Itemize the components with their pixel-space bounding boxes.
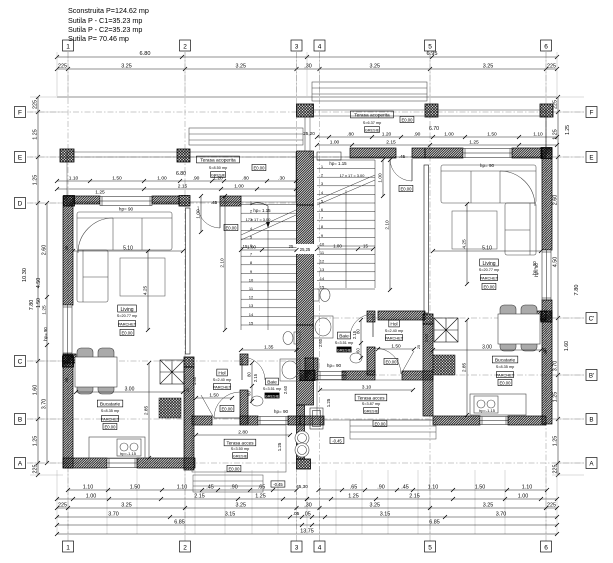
axis C' right line	[310, 317, 586, 319]
baie labels right	[338, 332, 351, 339]
bottom dim row2 right	[305, 493, 559, 501]
wall D-row west segment	[74, 196, 100, 204]
east terasa edge line	[545, 116, 547, 148]
svg-text:S=8.35 mp: S=8.35 mp	[496, 365, 514, 369]
svg-text:2.15: 2.15	[409, 493, 420, 499]
hall-kitchen thin wall upper right	[424, 165, 429, 313]
svg-text:3.15: 3.15	[380, 511, 391, 517]
svg-text:S=6.37 mp: S=6.37 mp	[363, 121, 381, 125]
svg-text:1.25: 1.25	[565, 125, 571, 135]
B'-row wall e right	[402, 371, 433, 380]
svg-text:15: 15	[363, 243, 368, 248]
svg-text:.65: .65	[350, 484, 358, 490]
svg-text:1.25: 1.25	[32, 129, 38, 140]
svg-text:6.85: 6.85	[429, 519, 440, 525]
axis 5 line	[429, 52, 431, 541]
axis A left box	[15, 458, 26, 469]
svg-text:60: 60	[355, 348, 360, 353]
svg-text:E0.00: E0.00	[375, 421, 387, 426]
svg-text:3: 3	[295, 44, 299, 51]
svg-text:4.50: 4.50	[36, 278, 42, 289]
B-row wall mid segment	[240, 416, 258, 425]
stair dim 1.00 right	[315, 243, 375, 251]
bottom dim row6	[55, 528, 559, 536]
svg-text:1.25: 1.25	[469, 140, 479, 146]
svg-text:6.85: 6.85	[174, 519, 185, 525]
svg-text:1.25: 1.25	[255, 493, 266, 499]
axis B left line	[27, 418, 300, 420]
tile block left	[159, 398, 181, 418]
svg-text:E0.00: E0.00	[500, 380, 512, 385]
svg-text:S=3.87 mp: S=3.87 mp	[362, 402, 380, 406]
south wall right segment e	[508, 416, 546, 425]
svg-text:S=3.51 mp: S=3.51 mp	[335, 341, 353, 345]
svg-text:1.25: 1.25	[32, 175, 38, 186]
svg-text:Terasa acoperita: Terasa acoperita	[354, 113, 390, 119]
coffee table right	[452, 211, 497, 249]
axis E left box	[15, 152, 26, 163]
svg-text:D: D	[18, 201, 23, 208]
wall hol-baie lower	[240, 390, 248, 425]
svg-text:6.95: 6.95	[427, 51, 438, 57]
terasa acces outline left	[192, 425, 286, 472]
svg-text:Bucatarie: Bucatarie	[100, 402, 121, 408]
svg-text:.45: .45	[399, 154, 406, 159]
svg-text:Living: Living	[482, 261, 495, 267]
coffee table left	[120, 258, 165, 296]
svg-text:225: 225	[547, 502, 556, 508]
svg-text:10: 10	[249, 277, 254, 282]
svg-text:.65: .65	[258, 484, 266, 490]
baie dim 80/60 right	[355, 318, 363, 360]
axis 2 bottom box	[180, 541, 191, 552]
svg-text:E0.00: E0.00	[105, 424, 117, 429]
axis D left line	[27, 202, 300, 204]
svg-text:1.25: 1.25	[552, 436, 558, 447]
svg-text:1.00: 1.00	[330, 139, 340, 145]
left dim chain inner	[41, 201, 49, 465]
svg-text:2.85: 2.85	[461, 363, 467, 373]
svg-text:1.25: 1.25	[42, 305, 48, 315]
svg-text:225: 225	[547, 63, 556, 69]
west wall lower	[63, 355, 73, 468]
central wall upper	[297, 151, 314, 205]
svg-text:1.00: 1.00	[195, 209, 201, 219]
svg-text:E: E	[18, 155, 23, 162]
svg-text:13: 13	[249, 303, 254, 308]
svg-text:25: 25	[186, 388, 190, 392]
svg-text:.45: .45	[211, 200, 218, 205]
svg-text:25,25: 25,25	[300, 247, 311, 252]
svg-text:Sutila P - C2=35.23 mp: Sutila P - C2=35.23 mp	[68, 25, 142, 34]
svg-text:GRESIE: GRESIE	[337, 348, 352, 352]
svg-text:.90: .90	[230, 484, 238, 490]
window hp=90 E-row right	[463, 149, 512, 158]
svg-text:Hol: Hol	[218, 371, 225, 377]
svg-text:35: 35	[64, 377, 69, 382]
B-row wall center stub	[300, 416, 324, 425]
wc left	[283, 332, 300, 345]
svg-text:Terasa acces: Terasa acces	[357, 396, 385, 401]
svg-text:17 x 17 = 3.00: 17 x 17 = 3.00	[246, 217, 272, 222]
svg-text:-0.45: -0.45	[332, 438, 342, 443]
central wall lower	[297, 325, 314, 405]
svg-text:3.70: 3.70	[41, 399, 47, 410]
svg-text:17 x 17 = 3.00: 17 x 17 = 3.00	[340, 173, 366, 178]
axis A left line	[27, 462, 300, 464]
svg-text:hp= 1.15: hp= 1.15	[253, 208, 271, 213]
bottom dim row5	[55, 519, 559, 527]
right extension lines	[552, 97, 584, 475]
axis C left box	[15, 356, 26, 367]
svg-text:Terasa acoperita: Terasa acoperita	[200, 158, 236, 164]
right interior dim row	[315, 131, 559, 139]
svg-text:2.60: 2.60	[283, 385, 288, 394]
living labels right	[480, 259, 499, 266]
south wall mid segment	[137, 458, 195, 468]
svg-text:2.80: 2.80	[238, 429, 248, 435]
svg-text:1.25: 1.25	[552, 392, 558, 403]
hol dim 1.50 right	[376, 343, 416, 351]
sofa left living	[77, 212, 172, 302]
svg-text:1.00: 1.00	[234, 183, 244, 189]
axis 4 line	[319, 52, 321, 541]
hol labels left	[217, 369, 228, 376]
svg-text:13.75: 13.75	[300, 528, 314, 534]
svg-text:3.25: 3.25	[483, 502, 494, 508]
svg-text:Sconstruita P=124.62 mp: Sconstruita P=124.62 mp	[68, 6, 149, 15]
axis A right box	[586, 458, 597, 469]
stairs right numbers	[320, 164, 325, 289]
B-row wall e stub	[288, 416, 300, 425]
stair dim 1.00	[239, 244, 299, 252]
axis 5 bottom box	[425, 541, 436, 552]
svg-text:1.00: 1.00	[157, 175, 167, 181]
svg-text:.45: .45	[401, 484, 409, 490]
title text block	[68, 6, 149, 43]
svg-text:.05: .05	[293, 511, 300, 517]
right terasa labels	[351, 111, 394, 118]
pier C'/east wall	[541, 311, 552, 322]
svg-text:3.25: 3.25	[370, 502, 381, 508]
axis 6 top box	[541, 40, 552, 51]
svg-text:1.10: 1.10	[522, 484, 533, 490]
central wall top pier	[297, 104, 314, 117]
svg-text:S=8.35 mp: S=8.35 mp	[101, 409, 119, 413]
svg-text:Hol: Hol	[390, 322, 397, 328]
svg-text:14: 14	[249, 312, 254, 317]
svg-text:12: 12	[249, 295, 254, 300]
wall E-row segment	[350, 148, 396, 158]
stairs left break line	[241, 210, 296, 235]
svg-text:E: E	[589, 155, 593, 162]
svg-text:S=20.77 mp: S=20.77 mp	[117, 314, 138, 318]
svg-text:.90: .90	[377, 484, 385, 490]
terasa acces outline right	[317, 380, 433, 420]
svg-text:E0.00: E0.00	[222, 406, 234, 411]
hol door leaf diagonal	[201, 395, 214, 418]
svg-text:Terasa acces: Terasa acces	[226, 441, 254, 446]
svg-text:S=3.51 mp: S=3.51 mp	[263, 387, 281, 391]
svg-text:1.50: 1.50	[487, 131, 497, 137]
svg-text:1.60: 1.60	[564, 341, 570, 351]
svg-text:10.30: 10.30	[22, 268, 28, 282]
dining set left	[75, 348, 117, 394]
svg-text:2.15: 2.15	[253, 373, 258, 382]
axis F left box	[15, 107, 26, 118]
svg-text:F: F	[18, 110, 22, 117]
left terasa steps top	[189, 128, 303, 145]
axis 1 top box	[63, 40, 74, 51]
svg-text:13: 13	[320, 267, 325, 272]
stair arrow left	[250, 203, 268, 225]
kitchen window hp=1.15	[107, 459, 137, 468]
svg-text:225: 225	[32, 100, 38, 109]
svg-text:PARCHET: PARCHET	[101, 416, 120, 421]
pier D-row east	[179, 196, 190, 207]
svg-text:.90: .90	[414, 131, 421, 137]
svg-text:1.10: 1.10	[69, 175, 79, 181]
axis 2 line	[184, 52, 186, 541]
left dim chain outer	[32, 95, 40, 477]
svg-text:2.10: 2.10	[219, 258, 225, 268]
pier central bottom	[297, 459, 311, 469]
bottom dim row4	[55, 511, 559, 519]
central wall mid	[297, 205, 314, 325]
svg-text:Living: Living	[120, 307, 133, 313]
svg-text:7.80: 7.80	[574, 285, 580, 296]
svg-text:-0.45: -0.45	[273, 482, 283, 487]
right dim chain inner	[552, 95, 560, 477]
axis B' right box	[586, 370, 597, 381]
svg-text:1.00: 1.00	[86, 493, 97, 499]
west wall upper	[63, 196, 73, 305]
B'-row window right	[318, 372, 346, 380]
svg-text:5: 5	[428, 44, 432, 51]
bottom dim row3	[55, 502, 559, 510]
svg-text:3.25: 3.25	[121, 502, 132, 508]
wall hol-baie upper right	[367, 311, 375, 322]
axis 2 top box	[180, 40, 191, 51]
terasa acces steps right	[350, 420, 436, 439]
svg-text:6.80: 6.80	[140, 51, 151, 57]
svg-text:1.50: 1.50	[391, 343, 401, 349]
svg-text:60: 60	[246, 391, 251, 396]
svg-text:hp= 90: hp= 90	[532, 261, 537, 275]
svg-text:PARCHET: PARCHET	[385, 335, 404, 340]
hol dim 1.50	[194, 392, 234, 400]
svg-text:4: 4	[318, 545, 322, 552]
kitchen dim 2.85	[143, 361, 151, 460]
svg-text:3.00: 3.00	[482, 344, 492, 350]
B'-row door arc right	[375, 348, 401, 374]
C-row pier west	[63, 354, 76, 363]
svg-text:.30: .30	[278, 175, 285, 181]
svg-text:1.25: 1.25	[326, 398, 331, 407]
window hp=90 D-row	[100, 197, 152, 206]
living-hall thin wall upper	[186, 208, 191, 354]
B-row wall w segment	[192, 416, 212, 425]
east wall upper	[542, 148, 552, 250]
svg-text:GRESIE: GRESIE	[233, 454, 248, 458]
dining set right	[498, 305, 540, 351]
svg-text:25: 25	[417, 345, 421, 349]
svg-text:Baie: Baie	[267, 380, 277, 386]
svg-text:1.00: 1.00	[247, 244, 256, 249]
terasa acces steps left	[193, 475, 263, 492]
svg-text:PARCHET: PARCHET	[480, 275, 499, 280]
axis D left box	[15, 198, 26, 209]
axis B' right line	[310, 374, 586, 376]
right interior dim row2	[315, 139, 559, 147]
svg-text:1.10: 1.10	[428, 484, 439, 490]
svg-text:2: 2	[183, 44, 187, 51]
svg-text:F: F	[590, 110, 594, 117]
svg-text:7.80: 7.80	[29, 300, 35, 311]
kitchen counter left	[89, 437, 145, 458]
left terasa labels	[197, 156, 240, 163]
svg-text:6: 6	[544, 545, 548, 552]
svg-text:1: 1	[66, 545, 70, 552]
svg-text:hp= 1.15: hp= 1.15	[329, 161, 347, 166]
svg-text:225: 225	[552, 465, 558, 474]
baie door arc left	[242, 357, 265, 380]
svg-text:hp= 90: hp= 90	[43, 327, 48, 341]
svg-text:.80: .80	[242, 175, 249, 181]
svg-text:hp= 90: hp= 90	[274, 409, 289, 414]
svg-text:Sutila P= 70.46 mp: Sutila P= 70.46 mp	[68, 34, 129, 43]
svg-text:225: 225	[58, 63, 67, 69]
axis 1 line	[67, 52, 69, 541]
svg-text:35: 35	[542, 347, 547, 352]
pier hall-kitchen C right	[423, 314, 433, 324]
C'-row wall hol top right	[378, 311, 425, 320]
hall dim 2.10	[219, 194, 227, 332]
pier D/axis1	[64, 196, 75, 207]
kitchen dim 2.85 right	[461, 318, 469, 417]
svg-text:25,20: 25,20	[303, 131, 315, 136]
svg-text:25: 25	[289, 244, 294, 249]
axis E right line	[310, 156, 586, 158]
baie labels left	[266, 378, 279, 385]
hall dim 1.00 right	[377, 158, 385, 198]
wall hol-baie lower right	[367, 347, 375, 375]
svg-text:2.15: 2.15	[352, 330, 357, 339]
svg-text:PARCHET: PARCHET	[213, 384, 232, 389]
bathtub right	[313, 316, 333, 338]
axis B left box	[15, 414, 26, 425]
svg-text:6.80: 6.80	[176, 171, 186, 177]
wc right	[313, 289, 330, 302]
hol door leaf diagonal right	[401, 351, 414, 374]
axis B right line	[310, 418, 586, 420]
svg-text:C: C	[18, 359, 23, 366]
kitchen counter right	[470, 394, 526, 415]
B'-row wall mid right	[342, 371, 375, 380]
svg-text:3.25: 3.25	[236, 502, 247, 508]
south wall west segment	[63, 458, 107, 468]
bottom extension lines	[57, 470, 557, 534]
bathtub left	[280, 359, 300, 381]
right terasa steps top	[312, 82, 427, 101]
wall E-row east segment right	[512, 148, 542, 158]
axis E left line	[27, 156, 300, 158]
svg-text:1.10: 1.10	[177, 484, 188, 490]
svg-text:1: 1	[66, 44, 70, 51]
hall dim 1.00	[195, 194, 203, 234]
svg-text:Baie: Baie	[339, 334, 349, 340]
svg-text:1.20: 1.20	[213, 175, 223, 181]
kitchen width 3.00 right	[431, 344, 543, 352]
stair hall E0.00 box	[224, 224, 238, 230]
svg-text:E0.00: E0.00	[386, 359, 398, 364]
svg-text:hp=-1.15: hp=-1.15	[120, 451, 137, 456]
svg-text:2.15: 2.15	[386, 139, 396, 145]
axis 4 bottom box	[314, 541, 325, 552]
top dim chain 3.25s	[55, 63, 559, 71]
svg-text:E0.00: E0.00	[122, 330, 134, 335]
left interior dim row2	[55, 183, 298, 191]
X box left	[160, 360, 184, 384]
svg-text:1.10: 1.10	[83, 484, 94, 490]
svg-text:GRESIE: GRESIE	[364, 409, 379, 413]
axis 5 top box	[425, 40, 436, 51]
svg-text:,30: ,30	[304, 502, 312, 508]
stairs left unit	[241, 196, 297, 330]
bottom dim row1 right	[317, 484, 550, 492]
svg-text:1.00: 1.00	[444, 131, 454, 137]
svg-text:1.50: 1.50	[130, 484, 141, 490]
svg-text:Sutila P - C1=35.23 mp: Sutila P - C1=35.23 mp	[68, 16, 142, 25]
stairs right break line	[317, 175, 375, 200]
svg-text:PARCHET: PARCHET	[118, 321, 137, 326]
stairs right unit	[317, 160, 375, 289]
svg-text:S=3.50 mp: S=3.50 mp	[231, 447, 249, 451]
svg-text:35: 35	[64, 245, 69, 250]
svg-text:15: 15	[249, 320, 254, 325]
tile block right	[433, 355, 455, 375]
svg-text:4.25: 4.25	[142, 286, 148, 296]
svg-text:3.15: 3.15	[225, 511, 236, 517]
wall living-hall lower solid	[184, 367, 194, 470]
living width dim right	[431, 245, 543, 253]
left interior dim row	[55, 175, 298, 183]
svg-text:E0.00: E0.00	[254, 165, 266, 170]
stairs left numbers	[249, 200, 254, 325]
kitchen window right hp=1.15	[480, 417, 508, 425]
svg-text:1.25: 1.25	[32, 436, 38, 447]
baie door arc right	[350, 314, 373, 337]
kitchen labels left	[97, 400, 123, 407]
axis B right box	[586, 414, 597, 425]
axis 6 line	[545, 52, 547, 541]
svg-text:S=2.40 mp: S=2.40 mp	[385, 329, 403, 333]
svg-text:10: 10	[320, 241, 325, 246]
wall D-row east stub	[220, 196, 241, 206]
svg-text:1.10: 1.10	[533, 131, 543, 137]
svg-text:3.70: 3.70	[553, 361, 559, 372]
pier E/axis6	[541, 148, 552, 159]
pier axis2/E	[177, 149, 190, 162]
svg-text:,30: ,30	[304, 63, 312, 69]
svg-text:3.25: 3.25	[483, 63, 494, 69]
svg-text:B: B	[18, 417, 22, 424]
svg-text:2.85: 2.85	[143, 406, 149, 416]
east wall lower	[542, 300, 552, 424]
axis 3 top box	[291, 40, 302, 51]
svg-text:hp= 90: hp= 90	[480, 163, 495, 168]
svg-text:B: B	[589, 417, 593, 424]
